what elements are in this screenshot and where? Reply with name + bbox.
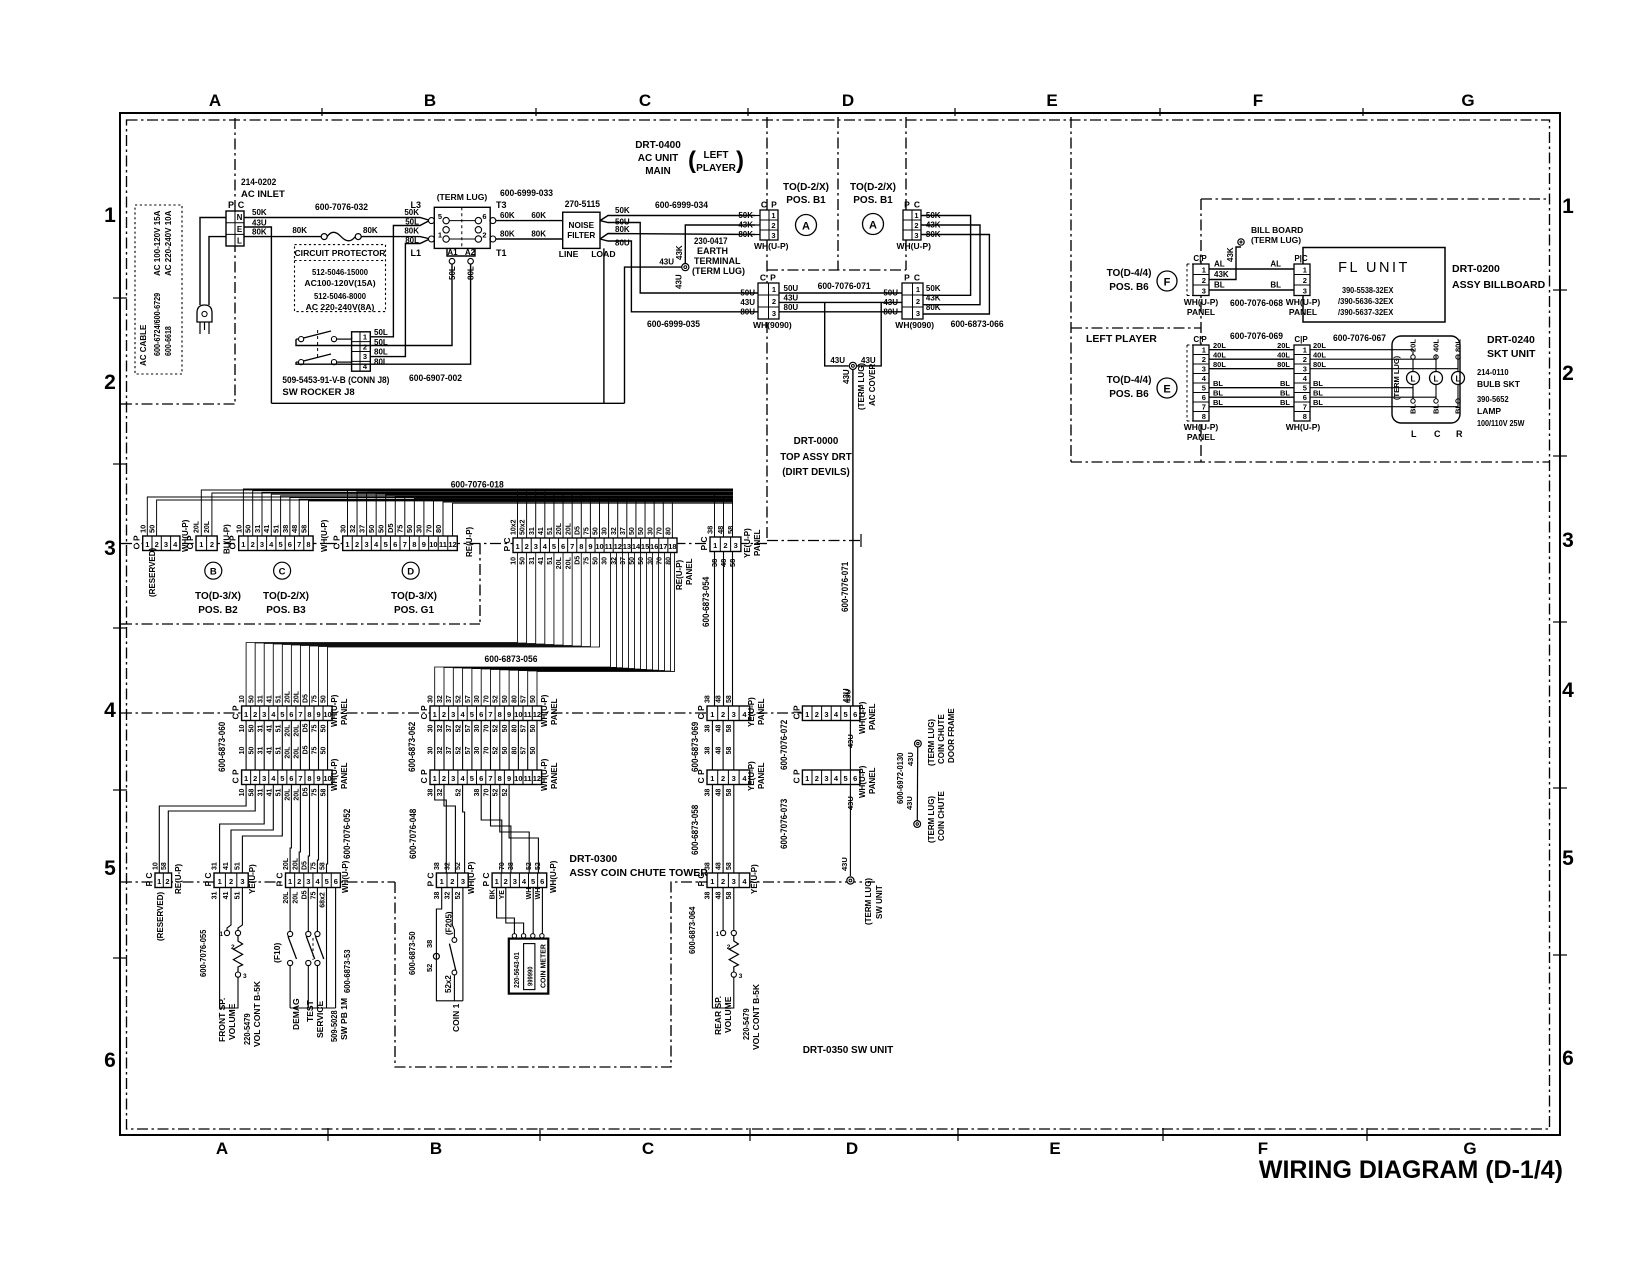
svg-text:WH(U-P): WH(U-P) [1286, 422, 1321, 432]
svg-text:70: 70 [483, 695, 490, 703]
svg-text:BL: BL [1280, 398, 1290, 407]
svg-text:10x2: 10x2 [511, 519, 518, 535]
switch common bottom bar [290, 1007, 336, 1009]
svg-text:WH(U-P): WH(U-P) [754, 241, 789, 251]
connector P|C 4pin rear volume row5 [707, 873, 750, 888]
connector C|P 4pin 600-6873-069 upper [707, 706, 750, 721]
svg-text:2: 2 [914, 221, 918, 230]
svg-text:214-0110: 214-0110 [1477, 367, 1509, 377]
wire 50U filter down to lower connector [600, 221, 758, 293]
wire 38 to rear pot bottom [712, 888, 733, 1008]
svg-text:48: 48 [715, 789, 722, 797]
svg-text:75: 75 [311, 892, 318, 900]
svg-text:5: 5 [280, 710, 284, 719]
svg-text:220-5643-01: 220-5643-01 [514, 952, 521, 988]
svg-text:41: 41 [223, 892, 230, 900]
svg-text:100/110V 25W: 100/110V 25W [1477, 418, 1525, 428]
coin meter terminals [512, 934, 516, 938]
svg-text:8: 8 [498, 774, 502, 783]
svg-text:PANEL: PANEL [685, 558, 694, 585]
svg-text:3: 3 [262, 774, 266, 783]
svg-text:7: 7 [298, 710, 302, 719]
svg-text:51: 51 [234, 862, 241, 870]
svg-text:C|P: C|P [1193, 254, 1207, 263]
wire fuse to term lug 80K [361, 237, 428, 239]
svg-text:DRT-0300: DRT-0300 [569, 853, 617, 865]
svg-text:50: 50 [367, 525, 376, 533]
svg-text:3: 3 [824, 774, 828, 783]
svg-text:(DIRT DEVILS): (DIRT DEVILS) [782, 467, 850, 478]
zone boundary AC-cable column vertical [234, 118, 236, 404]
svg-text:50: 50 [502, 695, 509, 703]
svg-text:F: F [1164, 277, 1171, 289]
svg-text:48: 48 [715, 725, 722, 733]
svg-text:11: 11 [605, 542, 613, 551]
svg-text:TO(D-3/X): TO(D-3/X) [195, 591, 241, 602]
svg-text:75: 75 [312, 747, 319, 755]
rocker switch connector 509-5453 (CONN J8) [352, 332, 371, 371]
inner dash-dot border [127, 120, 1550, 1129]
svg-text:AC 220-240V 10A: AC 220-240V 10A [164, 210, 173, 276]
svg-text:70: 70 [483, 725, 490, 733]
svg-text:80K: 80K [531, 230, 546, 239]
svg-text:BILL BOARD: BILL BOARD [1251, 225, 1303, 235]
svg-text:43U: 43U [740, 298, 755, 307]
svg-text:43K: 43K [926, 294, 941, 303]
svg-text:PANEL: PANEL [868, 703, 877, 730]
svg-text:31: 31 [529, 527, 536, 535]
svg-text:2: 2 [253, 710, 257, 719]
svg-text:50: 50 [248, 695, 255, 703]
svg-text:38: 38 [508, 862, 515, 870]
svg-text:L: L [237, 237, 242, 246]
svg-text:10: 10 [514, 710, 522, 719]
svg-text:D: D [407, 567, 414, 578]
svg-text:3: 3 [104, 537, 116, 560]
svg-text:50: 50 [502, 725, 509, 733]
svg-text:52: 52 [456, 695, 463, 703]
svg-text:52: 52 [456, 725, 463, 733]
svg-text:52: 52 [455, 862, 462, 870]
connector P|C 3pin row3 (to 600-6873-054) [710, 537, 741, 552]
wires 3pin row3 up to bus [714, 495, 716, 537]
svg-text:3: 3 [243, 973, 247, 980]
wire switch2 to pin3 [337, 361, 352, 363]
svg-text:DRT-0200: DRT-0200 [1452, 263, 1500, 275]
svg-text:10: 10 [239, 789, 246, 797]
wire loop 600-6873-066 [921, 216, 971, 296]
svg-text:C P: C P [696, 769, 706, 784]
wire AL billboard [1209, 268, 1294, 270]
svg-text:80K: 80K [404, 227, 419, 236]
svg-text:A: A [216, 1139, 228, 1158]
svg-text:30: 30 [602, 557, 609, 565]
svg-text:600-6873-054: 600-6873-054 [701, 577, 711, 627]
svg-text:600-7076-071: 600-7076-071 [840, 562, 850, 612]
svg-text:2: 2 [482, 231, 486, 240]
svg-text:(TERM LUG): (TERM LUG) [927, 719, 936, 766]
svg-text:5: 5 [280, 774, 284, 783]
svg-text:2: 2 [1303, 355, 1307, 364]
svg-text:A2: A2 [465, 248, 476, 257]
svg-text:600-6873-53: 600-6873-53 [342, 949, 352, 993]
svg-text:30: 30 [474, 747, 481, 755]
svg-text:PANEL: PANEL [757, 698, 766, 725]
svg-text:80: 80 [511, 725, 518, 733]
svg-text:/390-5637-32EX: /390-5637-32EX [1338, 307, 1394, 317]
svg-text:FRONT SP.: FRONT SP. [217, 998, 227, 1042]
svg-text:57: 57 [521, 695, 528, 703]
svg-text:C P: C P [231, 769, 241, 784]
svg-text:C: C [238, 200, 245, 210]
svg-text:52: 52 [535, 862, 542, 870]
svg-text:(TERM LUG): (TERM LUG) [1251, 235, 1301, 245]
wire 43U inlet-E down to bus [244, 227, 271, 403]
svg-text:220-5479: 220-5479 [242, 1013, 252, 1045]
svg-text:10: 10 [429, 540, 437, 549]
earth terminal 230-0417 [682, 264, 689, 271]
svg-text:3: 3 [262, 710, 266, 719]
svg-text:2: 2 [251, 540, 255, 549]
svg-text:70: 70 [483, 789, 490, 797]
svg-text:80: 80 [665, 557, 672, 565]
svg-text:31: 31 [212, 892, 219, 900]
svg-text:E: E [237, 225, 243, 234]
svg-text:1: 1 [710, 877, 714, 886]
svg-text:5: 5 [470, 710, 474, 719]
svg-text:80U: 80U [784, 303, 799, 312]
svg-text:13: 13 [623, 542, 631, 551]
svg-text:20L: 20L [565, 556, 572, 569]
svg-text:52: 52 [425, 964, 434, 972]
svg-text:52: 52 [456, 747, 463, 755]
svg-text:50: 50 [148, 525, 157, 533]
svg-text:DRT-0000: DRT-0000 [794, 436, 839, 447]
svg-text:12: 12 [448, 540, 456, 549]
svg-text:80K: 80K [292, 226, 307, 235]
svg-text:VOLUME: VOLUME [723, 996, 733, 1033]
svg-text:(TERM LUG): (TERM LUG) [927, 796, 936, 843]
svg-text:2: 2 [155, 540, 159, 549]
svg-text:1: 1 [199, 540, 203, 549]
svg-text:1: 1 [771, 211, 775, 220]
wire 43U between 6pin connectors [849, 721, 851, 771]
svg-text:50: 50 [638, 527, 645, 535]
switch dashed gang link [312, 938, 314, 960]
svg-text:80L: 80L [374, 348, 388, 357]
svg-text:52: 52 [493, 725, 500, 733]
svg-text:43U: 43U [844, 689, 853, 703]
svg-text:20L: 20L [1409, 339, 1418, 352]
svg-text:2: 2 [815, 774, 819, 783]
svg-text:10: 10 [239, 695, 246, 703]
svg-text:600-6873-064: 600-6873-064 [687, 906, 697, 954]
svg-text:POS. B1: POS. B1 [853, 195, 893, 206]
svg-text:37: 37 [620, 557, 627, 565]
zone box DRT-0200/0240 top y=199 [1201, 198, 1549, 200]
svg-text:10: 10 [239, 725, 246, 733]
svg-text:1: 1 [515, 542, 519, 551]
svg-text:30: 30 [428, 747, 435, 755]
svg-text:3: 3 [1202, 286, 1206, 295]
svg-text:6: 6 [479, 774, 483, 783]
svg-text:600-6873-058: 600-6873-058 [690, 805, 700, 855]
wires 18pin to bus (down bends) [517, 489, 519, 538]
svg-text:L: L [1411, 429, 1417, 439]
svg-text:58: 58 [726, 695, 733, 703]
svg-text:7: 7 [488, 710, 492, 719]
svg-text:C: C [639, 91, 651, 110]
svg-text:8: 8 [307, 710, 311, 719]
svg-text:P C: P C [699, 536, 709, 550]
svg-text:31: 31 [257, 747, 264, 755]
svg-text:AL: AL [1270, 260, 1281, 269]
svg-text:8: 8 [579, 542, 583, 551]
svg-text:80K: 80K [252, 228, 267, 237]
svg-text:51: 51 [275, 725, 282, 733]
svg-text:57: 57 [465, 725, 472, 733]
svg-text:D5: D5 [303, 694, 310, 703]
svg-text:41: 41 [223, 862, 230, 870]
svg-text:50x2: 50x2 [520, 519, 527, 535]
wires 12pin lower to row5 staircase [435, 785, 447, 874]
svg-text:C|P: C|P [1193, 335, 1207, 344]
svg-text:ASSY COIN CHUTE TOWER: ASSY COIN CHUTE TOWER [569, 867, 708, 879]
svg-text:20L: 20L [294, 788, 301, 801]
svg-text:7: 7 [298, 774, 302, 783]
circled A second [863, 214, 884, 235]
svg-text:600-7076-032: 600-7076-032 [315, 202, 368, 213]
svg-text:POS. B1: POS. B1 [786, 195, 826, 206]
svg-text:D5: D5 [303, 745, 310, 754]
rocker switch 1 [299, 337, 304, 342]
svg-text:10: 10 [138, 525, 147, 533]
svg-text:C|P: C|P [791, 705, 801, 720]
svg-text:C P: C P [332, 535, 342, 550]
svg-text:50: 50 [593, 557, 600, 565]
svg-text:1: 1 [710, 710, 714, 719]
wire A1 to switch1 common [296, 264, 452, 346]
svg-text:50: 50 [530, 747, 537, 755]
wire 80K term lug to noise filter [496, 238, 563, 240]
connector C|P 3pin billboard left [1193, 264, 1209, 296]
svg-text:2: 2 [1202, 276, 1206, 285]
svg-text:43U: 43U [830, 356, 845, 365]
connector P|C 6pin coin meter row5 [492, 873, 547, 888]
svg-text:3: 3 [732, 710, 736, 719]
svg-text:D5: D5 [303, 787, 310, 796]
svg-text:(TERM LUG): (TERM LUG) [864, 878, 873, 925]
svg-text:37: 37 [446, 747, 453, 755]
zone box B/C/D connectors bottom [121, 623, 480, 625]
svg-text:51: 51 [234, 892, 241, 900]
svg-text:DEMAG: DEMAG [291, 998, 301, 1030]
svg-text:PANEL: PANEL [550, 762, 559, 789]
svg-text:70: 70 [656, 527, 663, 535]
svg-text:WH(U-P): WH(U-P) [341, 860, 350, 893]
svg-text:58: 58 [321, 789, 328, 797]
svg-text:40L: 40L [1277, 351, 1290, 360]
zone box TO(D-2/X) POS.B1 dividers [837, 117, 839, 270]
wire earth terminal to 43U bus riser [625, 267, 682, 403]
svg-text:1: 1 [440, 877, 444, 886]
svg-text:20L: 20L [284, 788, 291, 801]
wire switch1 to pin1 [337, 338, 352, 340]
svg-text:80K: 80K [926, 303, 941, 312]
svg-text:38: 38 [428, 789, 435, 797]
svg-text:600-6999-034: 600-6999-034 [655, 200, 709, 211]
svg-text:2: 2 [297, 877, 301, 886]
svg-text:C: C [914, 273, 920, 283]
svg-text:BL: BL [1214, 281, 1225, 290]
svg-text:VOL CONT B-5K: VOL CONT B-5K [751, 983, 761, 1050]
coin switch bottom bar [436, 959, 463, 1001]
svg-text:P: P [770, 273, 776, 283]
svg-text:31: 31 [253, 525, 262, 533]
svg-text:600-7076-073: 600-7076-073 [779, 799, 789, 849]
svg-text:1: 1 [288, 877, 292, 886]
svg-text:12: 12 [614, 542, 622, 551]
svg-text:509-5453-91-V-B (CONN J8): 509-5453-91-V-B (CONN J8) [282, 375, 389, 386]
svg-text:48: 48 [715, 747, 722, 755]
svg-text:50: 50 [629, 527, 636, 535]
svg-text:COIN CHUTE: COIN CHUTE [937, 791, 946, 841]
wire 50K inlet-N to term lug [244, 218, 429, 221]
wire 43K billboard to term lug [1209, 247, 1241, 280]
svg-text:2: 2 [442, 774, 446, 783]
svg-text:2: 2 [721, 774, 725, 783]
svg-text:POS. B3: POS. B3 [266, 605, 306, 616]
svg-text:80L: 80L [1454, 339, 1463, 352]
svg-text:1: 1 [433, 710, 437, 719]
svg-text:3: 3 [1562, 529, 1574, 552]
terminal block A1 A2 bracket [447, 248, 475, 256]
svg-text:5: 5 [384, 540, 388, 549]
svg-text:PANEL: PANEL [1187, 432, 1215, 442]
svg-text:6: 6 [104, 1049, 116, 1072]
svg-text:5: 5 [470, 774, 474, 783]
svg-text:2: 2 [721, 710, 725, 719]
svg-text:1: 1 [433, 774, 437, 783]
svg-text:E: E [1046, 91, 1057, 110]
svg-text:5: 5 [844, 710, 848, 719]
svg-text:YE(U-P): YE(U-P) [248, 864, 257, 894]
wire 51 to pot terminal [238, 888, 242, 930]
svg-text:512-5046-8000: 512-5046-8000 [314, 291, 366, 301]
svg-text:58: 58 [726, 747, 733, 755]
wire 80K filter to connector A [600, 234, 755, 240]
svg-text:48: 48 [290, 525, 299, 533]
svg-text:8: 8 [412, 540, 416, 549]
connector P|C 6pin switches row5 [286, 873, 341, 888]
wire demag pin1 [289, 888, 291, 931]
svg-text:50: 50 [244, 525, 253, 533]
svg-text:2: 2 [504, 877, 508, 886]
svg-text:10: 10 [153, 862, 160, 870]
svg-text:20L: 20L [292, 857, 299, 870]
demag switch [288, 931, 293, 936]
svg-text:75: 75 [396, 525, 405, 533]
svg-text:60K: 60K [500, 211, 515, 220]
coin chute door frame terminal [915, 740, 922, 747]
svg-text:57: 57 [465, 695, 472, 703]
svg-text:52: 52 [493, 747, 500, 755]
svg-text:30: 30 [602, 527, 609, 535]
svg-text:600-7076-048: 600-7076-048 [408, 809, 418, 859]
svg-text:600-6972-0130: 600-6972-0130 [895, 752, 905, 804]
svg-text:PANEL: PANEL [757, 762, 766, 789]
svg-text:16: 16 [650, 542, 658, 551]
svg-text:50: 50 [321, 695, 328, 703]
svg-text:390-5538-32EX: 390-5538-32EX [1342, 285, 1394, 295]
svg-text:31: 31 [257, 789, 264, 797]
svg-text:20L: 20L [565, 522, 572, 535]
svg-text:C P: C P [696, 705, 706, 720]
svg-text:51: 51 [275, 789, 282, 797]
svg-text:SW ROCKER J8: SW ROCKER J8 [282, 387, 354, 398]
svg-text:37: 37 [620, 527, 627, 535]
svg-text:32: 32 [445, 892, 452, 900]
svg-text:P C: P C [481, 872, 491, 886]
svg-text:1: 1 [1562, 195, 1574, 218]
svg-text:BULB SKT: BULB SKT [1477, 379, 1521, 389]
svg-text:80K: 80K [363, 226, 378, 235]
connector C|P 6pin 600-7076-073 lower [802, 770, 860, 785]
svg-text:2: 2 [104, 371, 116, 394]
svg-text:): ) [736, 147, 744, 174]
svg-text:20L: 20L [283, 891, 290, 904]
svg-text:C P: C P [791, 769, 801, 784]
svg-text:50K: 50K [926, 284, 941, 293]
svg-text:80: 80 [511, 747, 518, 755]
svg-text:2: 2 [363, 342, 367, 351]
svg-text:41: 41 [266, 695, 273, 703]
svg-text:AC INLET: AC INLET [241, 189, 285, 200]
svg-text:9: 9 [316, 774, 320, 783]
grid tick marks [321, 108, 323, 116]
svg-text:D: D [846, 1139, 858, 1158]
svg-text:43U: 43U [840, 857, 849, 871]
svg-text:270-5115: 270-5115 [565, 199, 601, 210]
svg-text:1: 1 [244, 774, 248, 783]
svg-text:32: 32 [437, 789, 444, 797]
wire AC plug to inlet N [200, 218, 226, 306]
zone boundary AC-cable bottom [121, 403, 235, 405]
svg-text:50U: 50U [740, 289, 755, 298]
SW unit terminal lug [847, 877, 854, 884]
wire 31 to pot bottom [220, 888, 238, 1008]
svg-text:20L: 20L [556, 556, 563, 569]
svg-text:50: 50 [377, 525, 386, 533]
svg-text:/390-5636-32EX: /390-5636-32EX [1338, 296, 1394, 306]
coin switch lever [449, 944, 455, 971]
svg-text:30: 30 [428, 725, 435, 733]
svg-text:TO(D-2/X): TO(D-2/X) [850, 182, 896, 193]
svg-text:C: C [914, 200, 920, 210]
svg-text:75: 75 [311, 862, 318, 870]
svg-text:48: 48 [715, 862, 722, 870]
svg-text:RE(U-P): RE(U-P) [174, 863, 183, 894]
AC plug symbol [197, 305, 212, 322]
svg-text:D: D [842, 91, 854, 110]
svg-text:58: 58 [726, 526, 735, 534]
svg-text:1: 1 [1202, 265, 1206, 274]
svg-text:RE(U-P): RE(U-P) [465, 526, 474, 557]
svg-text:YE(U-P): YE(U-P) [747, 697, 756, 727]
svg-text:C: C [760, 273, 766, 283]
svg-text:AC 100-120V 15A: AC 100-120V 15A [153, 210, 162, 276]
svg-text:D5: D5 [303, 723, 310, 732]
